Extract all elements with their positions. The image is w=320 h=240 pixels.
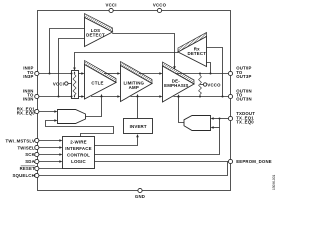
svg-text:13096-001: 13096-001 xyxy=(272,175,276,190)
resistor output termination (VCCO) xyxy=(199,74,202,97)
svg-text:CTLE: CTLE xyxy=(91,80,103,85)
pin RESET (left) xyxy=(20,166,39,171)
svg-text:VCCO: VCCO xyxy=(207,82,221,87)
pin IN0N TO IN3N (left) xyxy=(23,88,39,101)
wire SQUELCH xyxy=(39,162,228,176)
pin EEPROM_DONE (right) xyxy=(228,159,271,164)
svg-text:SQUELCH: SQUELCH xyxy=(12,173,34,178)
svg-text:SCK: SCK xyxy=(25,152,35,157)
wire LOS DETECT input tap P xyxy=(50,29,85,74)
svg-text:EMPHASIS: EMPHASIS xyxy=(164,83,188,88)
svg-text:OUT3P: OUT3P xyxy=(236,74,251,79)
wire P rail input xyxy=(39,73,72,75)
wire RX_EQ pins to mux xyxy=(39,110,58,113)
block INVERT xyxy=(124,119,153,134)
pin GND (bottom) xyxy=(135,188,145,199)
svg-text:LOGIC: LOGIC xyxy=(71,159,86,164)
resistor input termination (VCCI) xyxy=(72,71,79,99)
pin OUT0P TO OUT3P (right) xyxy=(228,66,251,79)
svg-text:VCCO: VCCO xyxy=(153,3,167,8)
pin SDA (left) xyxy=(25,159,39,164)
wire P rail LIMITING AMP to DE-EMPHASIS xyxy=(139,72,163,75)
junction xyxy=(210,73,212,75)
wire SCK to logic xyxy=(39,153,63,156)
pin TWISEL (left) xyxy=(17,145,38,150)
svg-text:IN3N: IN3N xyxy=(23,97,34,102)
svg-text:RX_EQ0: RX_EQ0 xyxy=(17,110,36,115)
wire control row B to TX mux xyxy=(95,119,220,155)
wire RESET to logic xyxy=(39,168,63,170)
wire N rail output xyxy=(174,96,229,98)
amplifier LIMITING AMP xyxy=(121,62,153,102)
wire TXDOUT pin to TX mux xyxy=(211,117,229,120)
wire Rx DETECT tap N rail xyxy=(207,48,223,97)
svg-text:OUT3N: OUT3N xyxy=(236,97,252,102)
svg-text:TWISEL: TWISEL xyxy=(17,145,35,150)
wire control row C to EEPROM_DONE xyxy=(95,161,229,163)
wire TWISEL to logic xyxy=(39,146,63,149)
chip outline xyxy=(38,11,231,191)
block 2-WIRE INTERFACE CONTROL LOGIC xyxy=(63,137,95,169)
wire TWI_MSTSLV to logic xyxy=(39,139,63,142)
pin VCCI (top) xyxy=(106,3,117,13)
wire LOS DETECT input tap N xyxy=(59,39,85,97)
wire INVERT to LIMITING AMP xyxy=(136,94,139,119)
junction output resistor bottom xyxy=(199,96,201,98)
svg-text:INTERFACE: INTERFACE xyxy=(65,146,92,151)
amplifier DE-EMPHASIS xyxy=(163,62,195,102)
svg-text:DETECT: DETECT xyxy=(86,32,105,37)
svg-text:AMP: AMP xyxy=(129,85,139,90)
wire N rail CTLE to LIMITING AMP xyxy=(91,95,121,98)
wire TX mux output to DE-EMPHASIS xyxy=(177,94,184,122)
svg-text:TX_EQ0: TX_EQ0 xyxy=(236,120,254,125)
pin RX_EQ1 RX_EQ0 (left) xyxy=(17,106,39,115)
wire mux output to CTLE xyxy=(86,94,103,117)
junction TX control N rail xyxy=(178,96,180,98)
pin TWI_MSTSLV (left) xyxy=(6,138,39,143)
pin VCCO (top) xyxy=(153,3,167,13)
wire N rail input xyxy=(39,96,72,98)
svg-text:RESET: RESET xyxy=(20,166,36,171)
mux TX equalizer select xyxy=(184,116,211,131)
wire SDA to logic xyxy=(39,160,63,163)
svg-text:INVERT: INVERT xyxy=(130,124,147,129)
junction xyxy=(49,73,51,75)
wire control row A to INVERT xyxy=(95,134,139,146)
svg-text:SDA: SDA xyxy=(25,159,35,164)
wire Rx DETECT tap P rail xyxy=(207,63,211,74)
amplifier LOS DETECT xyxy=(85,14,113,47)
pin SQUELCH (left) xyxy=(12,173,38,178)
svg-text:VCCI: VCCI xyxy=(106,3,117,8)
svg-text:DETECT: DETECT xyxy=(187,51,206,56)
wire N rail LIMITING AMP to DE-EMPHASIS xyxy=(131,95,163,98)
svg-text:2-WIRE: 2-WIRE xyxy=(70,140,86,145)
wire P rail CTLE to LIMITING AMP xyxy=(104,72,121,75)
node VCCI tap xyxy=(53,81,72,86)
junction resistor bottom xyxy=(71,96,73,98)
node VCCO tap xyxy=(200,82,221,87)
pin IN0P TO IN3P (left) xyxy=(23,66,39,79)
svg-text:TWI_MSTSLV: TWI_MSTSLV xyxy=(6,138,35,143)
pin SCK (left) xyxy=(25,152,39,157)
amplifier Rx DETECT xyxy=(178,33,207,67)
pin OUT0N TO OUT3N (right) xyxy=(228,88,251,101)
wire N rail to CTLE xyxy=(79,95,85,98)
junction TXDOUT xyxy=(219,118,221,120)
wire Rx DETECT output to input termination xyxy=(73,53,178,71)
amplifier CTLE xyxy=(85,61,117,100)
svg-text:IN3P: IN3P xyxy=(23,74,33,79)
svg-text:CONTROL: CONTROL xyxy=(67,152,90,157)
junction xyxy=(222,96,224,98)
wire LOS DETECT output to DE-EMPHASIS xyxy=(112,34,176,70)
wire P rail output xyxy=(176,73,229,75)
svg-text:EEPROM_DONE: EEPROM_DONE xyxy=(236,159,272,164)
junction xyxy=(58,96,60,98)
svg-text:GND: GND xyxy=(135,194,145,199)
junction resistor top xyxy=(71,73,73,75)
pin TXDOUT TX_EQ1 TX_EQ0 (right) xyxy=(228,111,255,125)
wire P rail to CTLE xyxy=(79,72,85,75)
wire mux second input loop from control logic xyxy=(46,119,114,136)
mux RX equalizer select xyxy=(58,110,86,124)
junction output resistor top xyxy=(199,73,201,75)
